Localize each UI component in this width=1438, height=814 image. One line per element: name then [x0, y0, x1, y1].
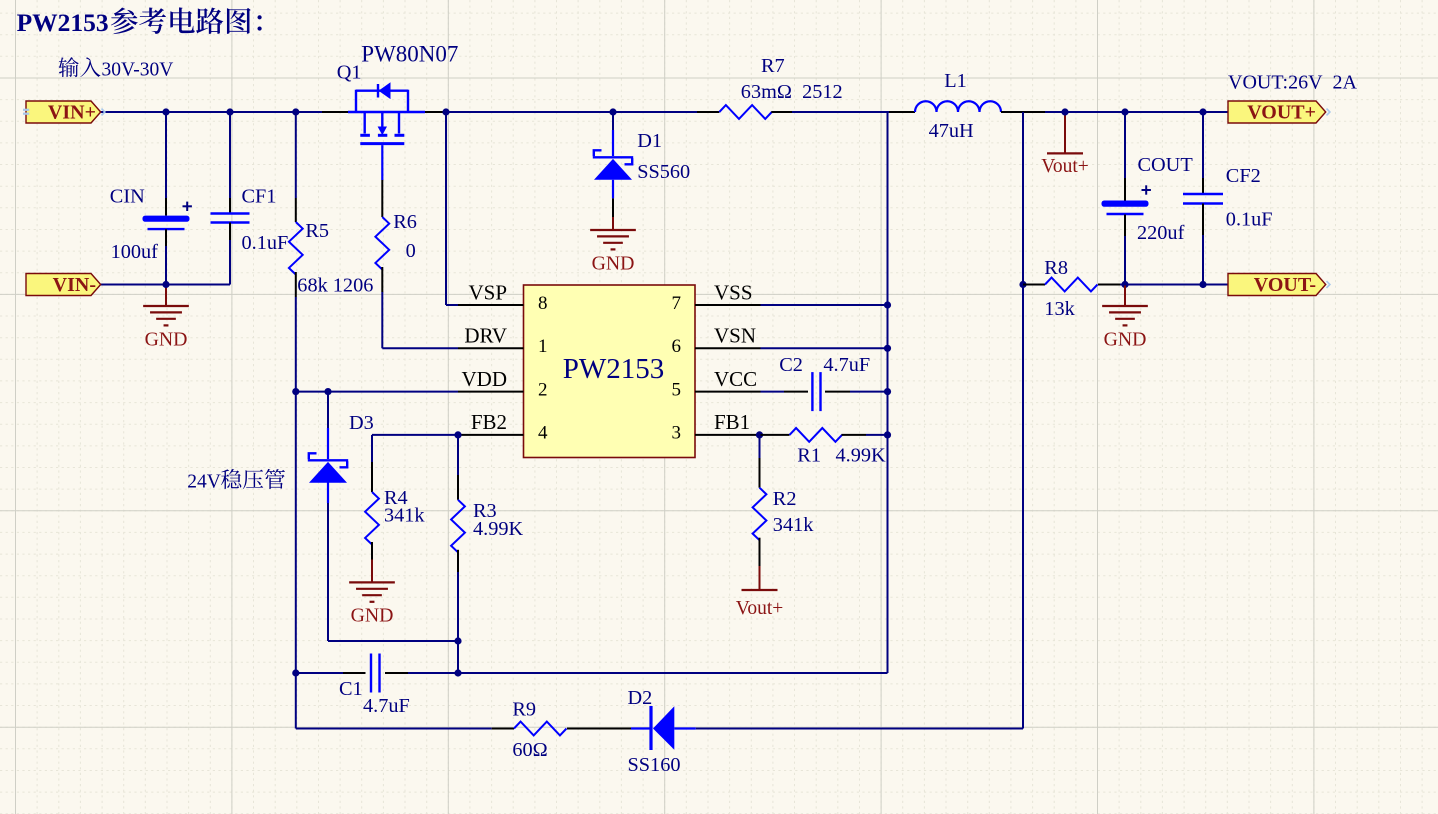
svg-text:68k 1206: 68k 1206 — [297, 274, 373, 296]
svg-text:VIN-: VIN- — [53, 274, 96, 296]
svg-text:4.7uF: 4.7uF — [363, 695, 410, 717]
svg-text:COUT: COUT — [1138, 154, 1194, 176]
svg-text:SS560: SS560 — [637, 161, 690, 183]
svg-text:R1: R1 — [797, 445, 821, 467]
svg-text:7: 7 — [672, 293, 682, 314]
svg-text:R5: R5 — [305, 220, 329, 242]
svg-text:VSN: VSN — [714, 324, 756, 348]
svg-text:R6: R6 — [393, 211, 417, 233]
svg-text:R9: R9 — [512, 699, 536, 721]
svg-text:DRV: DRV — [464, 324, 507, 348]
svg-text:GND: GND — [351, 605, 394, 627]
svg-text:0: 0 — [406, 240, 416, 262]
svg-text:VOUT+: VOUT+ — [1247, 101, 1316, 123]
svg-text:GND: GND — [1104, 328, 1147, 350]
svg-text:GND: GND — [145, 328, 188, 350]
svg-text:CF2: CF2 — [1226, 165, 1261, 187]
svg-text:R2: R2 — [773, 488, 797, 510]
svg-text:CIN: CIN — [110, 186, 145, 208]
svg-text:VDD: VDD — [462, 367, 508, 391]
svg-text:60Ω: 60Ω — [512, 739, 547, 761]
svg-text:63mΩ 2512: 63mΩ 2512 — [741, 81, 843, 103]
svg-text:D1: D1 — [637, 130, 662, 152]
svg-text:6: 6 — [672, 336, 682, 357]
svg-text:341k: 341k — [773, 514, 814, 536]
svg-text:FB1: FB1 — [714, 410, 750, 434]
svg-text:VIN+: VIN+ — [48, 101, 96, 123]
svg-text:VOUT-: VOUT- — [1254, 274, 1316, 296]
svg-text:341k: 341k — [384, 505, 425, 527]
svg-text:4.99K: 4.99K — [836, 445, 886, 467]
svg-text:C2: C2 — [779, 354, 803, 376]
svg-text:SS160: SS160 — [628, 754, 681, 776]
svg-text:4: 4 — [538, 423, 548, 444]
svg-text:47uH: 47uH — [929, 120, 974, 142]
svg-text:0.1uF: 0.1uF — [1226, 209, 1273, 231]
svg-text:VSP: VSP — [468, 280, 507, 304]
svg-text:PW80N07: PW80N07 — [361, 42, 458, 67]
svg-text:L1: L1 — [944, 70, 967, 92]
svg-text:FB2: FB2 — [471, 410, 507, 434]
svg-text:220uf: 220uf — [1137, 222, 1185, 244]
svg-text:0.1uF: 0.1uF — [242, 232, 289, 254]
svg-text:30V-30V: 30V-30V — [102, 59, 174, 80]
svg-text:2: 2 — [538, 379, 548, 400]
svg-text:Q1: Q1 — [337, 61, 362, 83]
svg-text:24V: 24V — [187, 471, 221, 492]
svg-text:PW2153: PW2153 — [17, 8, 109, 37]
svg-text:1: 1 — [538, 336, 548, 357]
svg-text:13k: 13k — [1044, 298, 1075, 320]
svg-text:CF1: CF1 — [242, 186, 277, 208]
svg-text:R7: R7 — [761, 55, 785, 77]
svg-text:C1: C1 — [339, 678, 363, 700]
svg-text:VCC: VCC — [714, 367, 757, 391]
svg-text:D3: D3 — [349, 412, 374, 434]
svg-text:PW2153: PW2153 — [563, 353, 665, 385]
svg-text:5: 5 — [672, 379, 682, 400]
svg-text:R8: R8 — [1044, 257, 1068, 279]
svg-text:GND: GND — [592, 252, 635, 274]
svg-text:3: 3 — [672, 423, 682, 444]
svg-text:VOUT:26V 2A: VOUT:26V 2A — [1228, 72, 1358, 94]
svg-text:Vout+: Vout+ — [736, 598, 783, 619]
svg-text:8: 8 — [538, 293, 548, 314]
svg-text:100uf: 100uf — [111, 241, 159, 263]
svg-text:Vout+: Vout+ — [1041, 156, 1088, 177]
svg-text:4.99K: 4.99K — [473, 518, 523, 540]
svg-text:D2: D2 — [628, 687, 653, 709]
svg-text:VSS: VSS — [714, 280, 753, 304]
svg-text:4.7uF: 4.7uF — [823, 354, 870, 376]
